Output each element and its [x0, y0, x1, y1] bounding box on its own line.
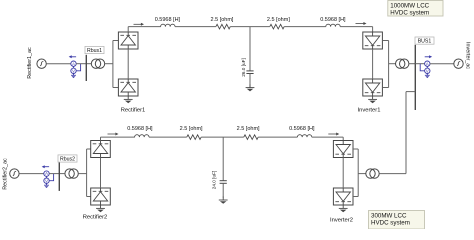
- AC source Inverter_ac: [454, 59, 463, 68]
- DC wire L4 to inverter2: [312, 136, 343, 138]
- wire rectifier2 to DC line: [100, 137, 102, 140]
- transformer T4: [366, 169, 379, 178]
- current/voltage meter at Rbus2: [42, 165, 54, 188]
- wire rectifier1 to DC line: [127, 27, 129, 32]
- label Rectifier1: [121, 108, 145, 114]
- svg-text:A: A: [426, 61, 429, 66]
- svg-text:V: V: [426, 68, 429, 73]
- DC wire rectifier1 to L1: [128, 26, 161, 28]
- ground under capacitor C2: [219, 197, 228, 204]
- svg-text:Rectifier1: Rectifier1: [121, 108, 145, 114]
- current direction arrow rectifier2 side: [108, 133, 119, 136]
- svg-text:Rectifier1_ac: Rectifier1_ac: [27, 47, 33, 79]
- svg-text:2.5 [ohm]: 2.5 [ohm]: [267, 17, 290, 23]
- svg-text:Rbus1: Rbus1: [87, 48, 102, 54]
- wire DC line down to inverter1: [372, 27, 374, 32]
- wire between rectifier1 valve groups: [127, 49, 129, 79]
- DC wire L1 to R1: [175, 26, 216, 28]
- current direction arrow inverter1 side: [356, 22, 367, 25]
- AC source Rectifier2_ac: [10, 169, 19, 178]
- bus BUS1: [414, 45, 416, 110]
- wire source2 to meter: [19, 173, 44, 175]
- ground under Rectifier2: [96, 205, 105, 212]
- wire transformer T4 to BUS1 link: [379, 173, 406, 175]
- svg-text:24.0 [uF]: 24.0 [uF]: [212, 171, 217, 190]
- inverter2 lower valve group: [333, 188, 353, 205]
- AC source Rectifier1_ac: [37, 59, 46, 68]
- rectifier2 lower valve group: [91, 188, 111, 205]
- wire meter to bus Rbus1: [76, 63, 91, 65]
- label Inverter1: [358, 108, 381, 114]
- DC line resistor R2 2.5 ohm: [267, 17, 290, 29]
- source name label Inverter_ac: [465, 42, 471, 69]
- wire inverter1 bracket to transformer T2: [389, 63, 396, 65]
- svg-text:BUS1: BUS1: [418, 39, 432, 45]
- label Rectifier2: [83, 215, 107, 221]
- svg-text:0.5968 [H]: 0.5968 [H]: [320, 17, 346, 23]
- DC wire R2 to L2: [284, 26, 326, 28]
- svg-text:V: V: [45, 178, 48, 183]
- DC line resistor R3 2.5 ohm: [180, 126, 203, 139]
- DC filter capacitor C2 24.0 uF: [212, 137, 227, 197]
- wire source to meter: [46, 63, 71, 65]
- ground under Inverter2: [339, 205, 348, 212]
- rectifier1 upper valve group: [118, 32, 138, 49]
- inverter1 lower valve group: [363, 79, 383, 96]
- transformer T3: [65, 169, 78, 178]
- rectifier1 AC-side bracket wire: [113, 41, 119, 88]
- label Inverter2: [330, 218, 353, 224]
- wire meter to inverter AC source: [430, 63, 454, 65]
- svg-text:Rectifier2: Rectifier2: [83, 215, 107, 221]
- svg-text:0.5968 [H]: 0.5968 [H]: [155, 17, 181, 23]
- transformer T1: [91, 59, 104, 68]
- svg-text:A: A: [45, 171, 48, 176]
- transformer T2: [396, 59, 409, 68]
- current direction arrow inverter2 side: [328, 133, 339, 136]
- source name label Rectifier1_ac: [27, 47, 33, 79]
- svg-text:HVDC system: HVDC system: [371, 220, 410, 227]
- wire between inverter1 valve groups: [372, 49, 374, 79]
- smoothing reactor L2 0.5968 H: [320, 17, 346, 26]
- bus label Rbus1: [85, 46, 104, 54]
- svg-text:Rectifier2_ac: Rectifier2_ac: [3, 158, 9, 190]
- DC wire R4 to L4: [258, 136, 297, 138]
- svg-text:2.5 [ohm]: 2.5 [ohm]: [211, 17, 234, 23]
- svg-text:HVDC system: HVDC system: [390, 10, 429, 17]
- svg-text:V: V: [72, 68, 75, 73]
- ground under capacitor C1: [246, 84, 255, 91]
- rectifier1 lower valve group: [118, 79, 138, 96]
- svg-text:2.5 [ohm]: 2.5 [ohm]: [180, 126, 203, 132]
- annotation box 1000MW LCC HVDC system: [388, 1, 443, 17]
- svg-text:2.5 [ohm]: 2.5 [ohm]: [237, 126, 260, 132]
- inverter2 AC-side bracket wire: [353, 149, 358, 197]
- DC line resistor R1 2.5 ohm: [211, 17, 234, 29]
- DC filter capacitor C1 26.0 uF: [241, 27, 254, 88]
- svg-text:1000MW LCC: 1000MW LCC: [390, 3, 429, 10]
- rectifier2 AC-side bracket wire: [87, 149, 91, 197]
- bus Rbus1: [85, 55, 87, 81]
- inverter2 upper valve group: [333, 141, 353, 158]
- bus label Rbus2: [58, 155, 77, 163]
- wire between inverter2 valve groups: [342, 158, 344, 189]
- ground under Inverter1: [368, 96, 377, 103]
- smoothing reactor L4 0.5968 H: [289, 126, 315, 137]
- wire link vertical to inverter2 transformer: [405, 92, 407, 174]
- svg-text:0.5968 [H]: 0.5968 [H]: [289, 126, 315, 132]
- current direction arrow rectifier1 side: [134, 23, 145, 26]
- DC wire R3 to midpoint: [201, 136, 244, 138]
- inverter1 AC-side bracket wire: [382, 41, 388, 88]
- svg-text:Rbus2: Rbus2: [60, 157, 75, 163]
- smoothing reactor L3 0.5968 H: [127, 126, 153, 137]
- wire transformer T1 to rectifier bridge: [105, 63, 113, 65]
- svg-text:Inverter_ac: Inverter_ac: [465, 42, 471, 69]
- DC wire R1 to midpoint node: [230, 26, 269, 28]
- svg-text:Inverter2: Inverter2: [330, 218, 353, 224]
- rectifier2 upper valve group: [91, 141, 111, 158]
- svg-text:0.5968 [H]: 0.5968 [H]: [127, 126, 153, 132]
- wire BUS1 to meter: [415, 63, 424, 65]
- wire inverter2 bracket to transformer T4: [358, 173, 366, 175]
- svg-text:Inverter1: Inverter1: [358, 108, 381, 114]
- current/voltage meter at BUS1: [420, 55, 432, 78]
- wire DC line down to inverter2: [342, 137, 344, 140]
- annotation box 300MW LCC HVDC system: [369, 211, 425, 230]
- DC wire rectifier2 to L3: [101, 136, 135, 138]
- svg-text:A: A: [72, 61, 75, 66]
- inverter1 upper valve group: [363, 32, 383, 49]
- wire between rectifier2 valve groups: [100, 158, 102, 189]
- DC wire L2 to inverter1: [340, 26, 372, 28]
- svg-text:300MW LCC: 300MW LCC: [371, 213, 407, 220]
- ground under Rectifier1: [124, 96, 133, 103]
- wire transformer T3 to rectifier2 bridge: [78, 173, 86, 175]
- current/voltage meter at Rbus1: [69, 55, 81, 78]
- DC wire L3 to R3: [149, 136, 187, 138]
- wire transformer T2 to BUS1: [409, 63, 415, 65]
- wire link from BUS1 horizontal: [406, 91, 415, 93]
- smoothing reactor L1 0.5968 H: [155, 17, 181, 26]
- bus label BUS1: [415, 37, 434, 45]
- source name label Rectifier2_ac: [3, 158, 9, 190]
- wire meter to bus Rbus2: [49, 173, 64, 175]
- svg-text:26.0 [uF]: 26.0 [uF]: [241, 58, 246, 77]
- DC line resistor R4 2.5 ohm: [237, 126, 260, 139]
- bus Rbus2: [58, 162, 60, 191]
